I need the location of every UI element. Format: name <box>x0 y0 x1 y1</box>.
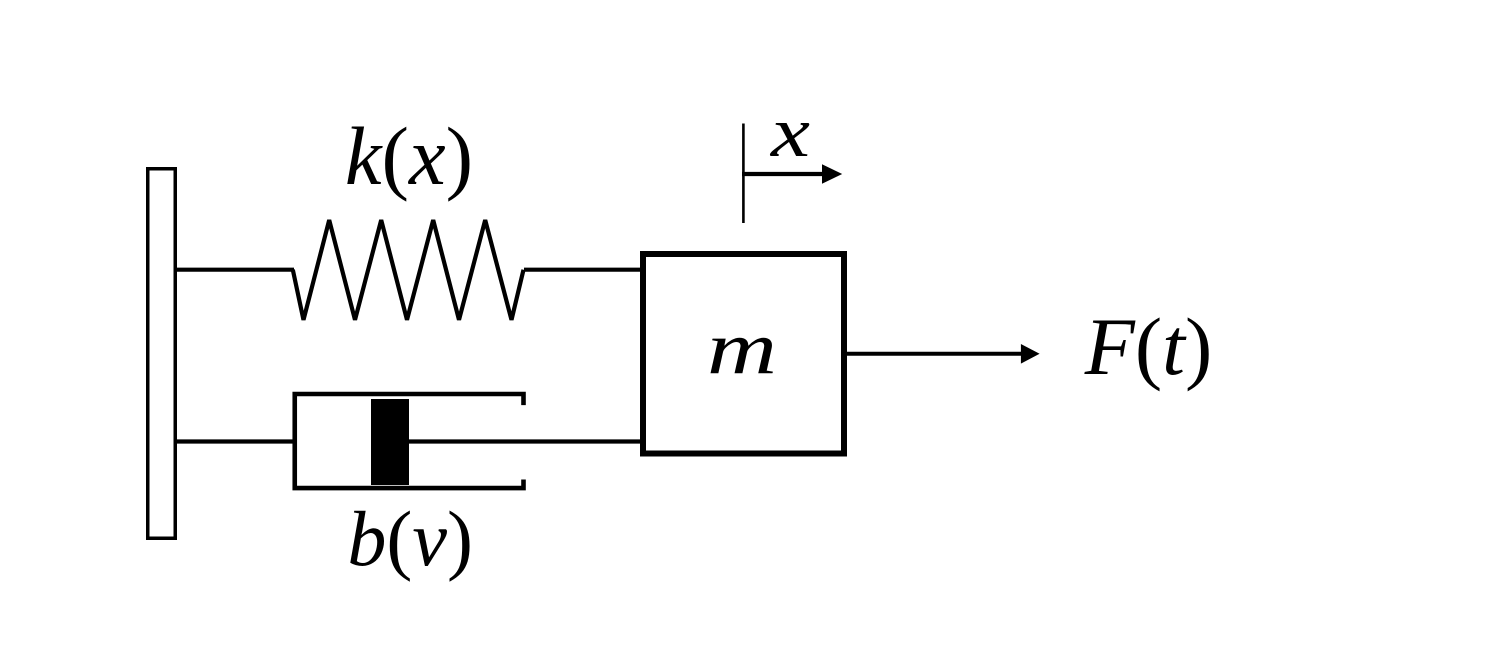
fixed wall <box>148 169 176 539</box>
svg-text:k(x): k(x) <box>345 110 473 202</box>
svg-text:x: x <box>770 92 810 172</box>
damper rod to mass <box>405 439 643 443</box>
svg-text:b(v): b(v) <box>347 495 473 582</box>
svg-text:F(t): F(t) <box>1084 301 1213 392</box>
wire spring to mass <box>524 268 643 272</box>
mass m <box>643 254 844 454</box>
force arrow F(t) <box>845 352 1023 356</box>
damper piston <box>371 399 409 485</box>
wire wall to damper <box>175 439 296 443</box>
svg-text:m: m <box>707 307 777 390</box>
x arrow <box>742 172 823 176</box>
damper cylinder <box>295 394 524 488</box>
spring k(x) <box>293 220 524 320</box>
wire wall to spring <box>175 268 294 272</box>
x reference line <box>742 124 745 224</box>
